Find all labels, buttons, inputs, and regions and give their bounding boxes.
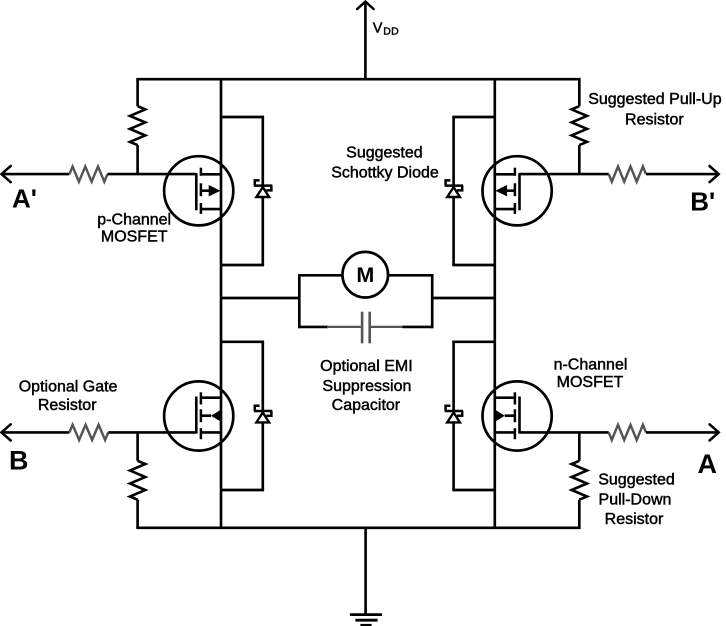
svg-text:Resistor: Resistor: [605, 511, 664, 528]
wire: lower-right diode loop: [452, 342, 495, 490]
svg-text:A: A: [698, 449, 718, 479]
label: Suggested Schottky Diode: [331, 144, 439, 181]
svg-text:B': B': [690, 187, 715, 217]
wire: upper-right diode loop: [452, 117, 495, 265]
resistor: Suggested Pull-Down: [572, 461, 587, 500]
svg-text:MOSFET: MOSFET: [557, 374, 624, 391]
wire: right output stub: [432, 297, 495, 300]
p-channel MOSFET Q2 (upper right): [482, 156, 551, 225]
wire: right pull-down column bottom: [578, 500, 581, 528]
label: n-Channel MOSFET: [554, 356, 628, 391]
n-channel MOSFET Q3 (lower left): [164, 381, 233, 450]
wire: left pull-down column top: [136, 432, 139, 460]
svg-text:Optional Gate: Optional Gate: [19, 378, 118, 395]
wire: B' gate lead: [520, 173, 609, 176]
wire: capacitor branch left (gray): [327, 326, 361, 328]
wire: left output stub: [221, 297, 299, 300]
wire: left pull-up column top: [136, 79, 139, 106]
p-channel MOSFET Q1 (upper left): [164, 156, 233, 225]
n-channel MOSFET Q4 (lower right): [482, 381, 551, 450]
node B' arrow: [710, 166, 719, 182]
wire: A lead: [646, 431, 719, 434]
svg-text:V: V: [373, 20, 383, 36]
svg-text:n-Channel: n-Channel: [554, 356, 628, 373]
svg-text:A': A': [12, 183, 37, 213]
motor M1: [342, 252, 388, 298]
svg-text:Capacitor: Capacitor: [332, 397, 401, 414]
svg-text:Optional EMI: Optional EMI: [320, 358, 412, 375]
svg-text:Suggested Pull-Up: Suggested Pull-Up: [588, 91, 722, 108]
wire: A gate lead: [520, 431, 609, 434]
wire: capacitor branch right (black): [403, 326, 434, 329]
svg-text:p-Channel: p-Channel: [97, 211, 171, 228]
wire: B to gate: [108, 431, 196, 434]
wire: upper-left diode loop: [221, 117, 264, 265]
wire: top rail: [136, 78, 580, 81]
schottky diode D4 (lower right): [445, 406, 463, 423]
ground lead wire: [364, 528, 367, 615]
wire: left pull-down column bottom: [136, 500, 139, 528]
svg-text:MOSFET: MOSFET: [101, 229, 168, 246]
resistor: left gate pull-down: [130, 461, 145, 500]
wire: motor rect left vertical: [298, 274, 301, 328]
wire: right pull-up column bottom: [578, 145, 581, 174]
label: p-Channel MOSFET: [97, 211, 171, 245]
wire: bottom rail: [136, 526, 580, 529]
resistor: A gate resistor: [609, 425, 646, 440]
ground: [350, 615, 382, 626]
wire: right pull-up column top: [578, 79, 581, 106]
resistor: Suggested Pull-Up: [572, 106, 587, 145]
capacitor C1 (EMI suppression): [362, 312, 370, 344]
node B arrow: [2, 424, 11, 440]
wire: B lead: [2, 431, 70, 434]
resistor: left gate pull-up: [130, 106, 145, 145]
VDD supply line: [357, 2, 373, 80]
svg-text:Resistor: Resistor: [38, 397, 97, 414]
wire: motor rect right vertical: [431, 274, 434, 328]
wire: motor branch right: [388, 274, 432, 277]
wire: capacitor branch right (gray): [370, 326, 403, 328]
label: Optional Gate Resistor: [19, 378, 118, 414]
svg-text:Suggested: Suggested: [598, 471, 675, 488]
resistor: B' gate resistor: [609, 167, 646, 182]
svg-text:DD: DD: [383, 25, 399, 37]
svg-text:Suggested: Suggested: [346, 144, 423, 161]
wire: motor branch left: [299, 274, 342, 277]
wire: right pull-down column top: [578, 432, 581, 460]
svg-text:Schottky Diode: Schottky Diode: [331, 165, 439, 182]
wire: left pull-up column bottom: [136, 145, 139, 174]
svg-text:M: M: [356, 263, 374, 287]
label: Suggested Pull-Down Resistor: [598, 471, 675, 528]
node A' arrow: [2, 166, 11, 182]
wire: A' to gate: [108, 173, 197, 176]
wire: A' lead: [2, 173, 70, 176]
svg-text:Suppression: Suppression: [322, 378, 411, 395]
svg-text:Pull-Down: Pull-Down: [599, 492, 672, 509]
wire: right bridge rail: [493, 79, 496, 528]
wire: lower-left diode loop: [221, 342, 264, 490]
wire: left bridge rail: [220, 79, 223, 528]
resistor: A' gate resistor: [69, 167, 107, 182]
label: Suggested Pull-Up Resistor: [588, 91, 722, 129]
schottky diode D3 (lower left): [254, 406, 272, 423]
wire: B' lead: [646, 173, 719, 176]
node A arrow: [710, 424, 719, 440]
label: Optional EMI Suppression Capacitor: [320, 358, 412, 414]
schottky diode D2 (upper right): [445, 180, 463, 197]
schottky diode D1 (upper left): [254, 180, 272, 197]
wire: capacitor branch left (black): [298, 326, 328, 329]
svg-text:B: B: [9, 446, 29, 476]
svg-text:Resistor: Resistor: [625, 112, 684, 129]
resistor: Optional Gate Resistor (B): [69, 425, 108, 440]
